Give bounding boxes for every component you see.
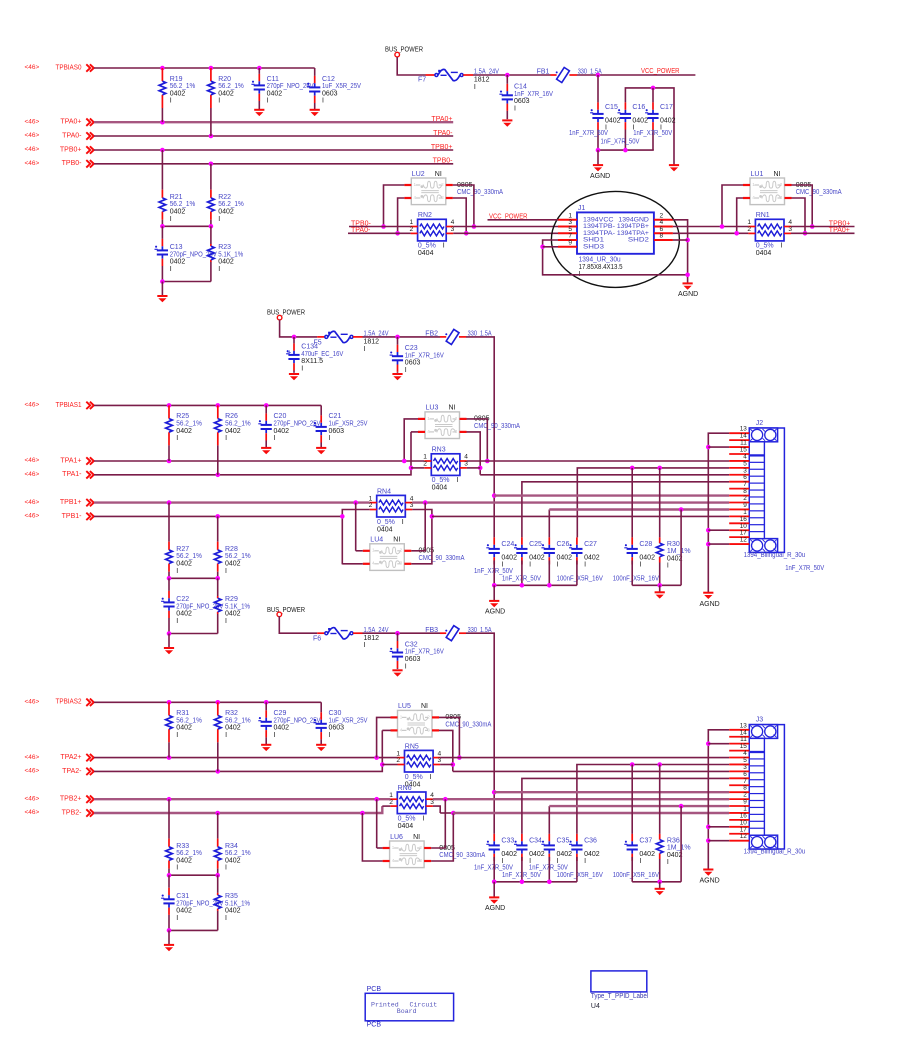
- svg-text:I: I: [170, 216, 172, 223]
- junction J3 pin11: [706, 741, 711, 746]
- junction C23: [395, 335, 400, 340]
- svg-text:0402: 0402: [176, 560, 192, 567]
- svg-text:TPA0-: TPA0-: [433, 130, 453, 137]
- svg-text:TPB2+: TPB2+: [60, 796, 82, 803]
- svg-text:R20: R20: [218, 76, 231, 83]
- svg-text:2: 2: [747, 226, 751, 233]
- svg-text:AGND: AGND: [485, 905, 505, 912]
- svg-text:9: 9: [568, 239, 572, 246]
- svg-text:2: 2: [396, 757, 400, 764]
- svg-text:100nF_X5R_16V: 100nF_X5R_16V: [613, 575, 660, 582]
- svg-text:I: I: [529, 562, 531, 569]
- capacitor C134: [293, 351, 295, 355]
- junction J2 pin11: [706, 445, 711, 450]
- junction R36 top: [657, 762, 662, 767]
- svg-text:I: I: [176, 915, 178, 922]
- junction TPA2--LU5lb: [380, 762, 385, 767]
- svg-text:0404: 0404: [377, 526, 393, 533]
- junction TPB0+-R21: [160, 148, 165, 153]
- svg-text:C30: C30: [329, 710, 342, 717]
- svg-text:I: I: [225, 435, 227, 442]
- svg-text:0402: 0402: [557, 851, 573, 858]
- svg-text:1812: 1812: [474, 77, 490, 84]
- wire pin8 line 2: [494, 791, 729, 793]
- wire TPB1- rail: [94, 515, 342, 517]
- svg-text:C26: C26: [557, 541, 570, 548]
- junction TPBIAS2-R32: [216, 700, 221, 705]
- resistor R35: [217, 875, 219, 893]
- junction TPBIAS1-C20: [264, 403, 269, 408]
- capacitor C25: [521, 545, 523, 549]
- wire C28/R30 bus: [631, 560, 633, 585]
- svg-text:SHD2: SHD2: [628, 236, 649, 243]
- resistor R19: [161, 68, 163, 81]
- wire pin8 line: [494, 494, 729, 496]
- svg-text:1: 1: [400, 714, 403, 719]
- fuse F7: [426, 74, 435, 76]
- wire RN6 pin4 line to J3: [433, 798, 729, 800]
- ground AGND caps2: [489, 896, 499, 898]
- svg-text:I: I: [514, 105, 516, 112]
- svg-text:I: I: [301, 365, 303, 372]
- svg-text:TPB0+: TPB0+: [60, 146, 82, 153]
- wire LU2 right-top: [453, 185, 474, 227]
- wire RN5 pin3 stub-link: [440, 764, 453, 766]
- svg-text:0402: 0402: [274, 725, 290, 732]
- svg-text:C25: C25: [529, 541, 542, 548]
- junction TPA2+-LU5lt: [374, 755, 379, 760]
- svg-text:1: 1: [392, 845, 395, 850]
- svg-text:0402: 0402: [529, 851, 545, 858]
- wire pin4 line to J3: [440, 757, 729, 759]
- svg-text:17.85X8.4X13.5: 17.85X8.4X13.5: [579, 264, 623, 271]
- junction TPBIAS1-R26: [216, 403, 221, 408]
- svg-text:LU3: LU3: [426, 405, 439, 412]
- svg-text:C31: C31: [176, 893, 189, 900]
- wire gnd drop: [161, 282, 163, 297]
- svg-text:LU5: LU5: [398, 703, 411, 710]
- svg-text:C17: C17: [660, 104, 673, 111]
- svg-text:2: 2: [427, 714, 430, 719]
- junction R30 top: [657, 466, 662, 471]
- pin stubs J3: [729, 722, 749, 840]
- wire pin5 line 2: [577, 765, 729, 834]
- svg-text:RN3: RN3: [432, 447, 446, 454]
- svg-text:FB3: FB3: [425, 627, 438, 634]
- svg-text:0402: 0402: [667, 852, 683, 859]
- ferrite bead FB1: [551, 74, 557, 76]
- wire C15-C17 bottom rail: [598, 149, 654, 151]
- svg-text:Type_T_PPID_Label: Type_T_PPID_Label: [591, 993, 649, 1000]
- svg-text:R21: R21: [170, 194, 183, 201]
- svg-text:J3: J3: [756, 717, 764, 724]
- svg-text:I: I: [176, 568, 178, 575]
- junction LU3lb: [409, 466, 414, 471]
- wire TPA0- rail: [94, 135, 453, 137]
- svg-text:TPBIAS2: TPBIAS2: [56, 699, 82, 706]
- svg-text:CMC_90_330mA: CMC_90_330mA: [445, 721, 491, 728]
- svg-text:4: 4: [392, 858, 395, 863]
- svg-text:C15: C15: [605, 104, 618, 111]
- svg-text:U4: U4: [591, 1003, 600, 1010]
- capacitor C23: [397, 352, 399, 356]
- svg-text:1M_1%: 1M_1%: [667, 845, 691, 852]
- svg-text:LU6: LU6: [390, 834, 403, 841]
- svg-text:<46>: <46>: [25, 146, 40, 153]
- svg-text:<46>: <46>: [25, 457, 40, 464]
- junction mid2 left: [167, 873, 172, 878]
- ground section2: [164, 944, 174, 946]
- junction TPB2+-R33: [167, 797, 172, 802]
- svg-text:+: +: [287, 349, 291, 356]
- svg-text:I: I: [176, 865, 178, 872]
- ground C29: [261, 744, 271, 746]
- svg-text:I: I: [667, 859, 669, 866]
- svg-text:56.2_1%: 56.2_1%: [170, 201, 196, 208]
- svg-text:PCB: PCB: [367, 1021, 382, 1028]
- ground section1: [164, 647, 174, 649]
- svg-text:I: I: [218, 216, 220, 223]
- svg-text:I: I: [781, 243, 783, 250]
- svg-text:0404: 0404: [756, 250, 772, 257]
- resistor R23: [210, 226, 212, 244]
- wire TPBIAS2 rail: [94, 701, 321, 703]
- svg-text:0402: 0402: [170, 90, 186, 97]
- svg-text:0402: 0402: [605, 117, 621, 124]
- resistor R27: [168, 503, 170, 542]
- choke LU4 (NI): [370, 544, 405, 571]
- wire LU1 right-bottom: [792, 198, 806, 233]
- svg-text:BUS_POWER: BUS_POWER: [267, 607, 305, 614]
- svg-text:I: I: [225, 618, 227, 625]
- junction C15 bottom: [596, 148, 601, 153]
- svg-text:R28: R28: [225, 546, 238, 553]
- junction LU5rt: [457, 755, 462, 760]
- ground AGND caps1: [489, 600, 499, 602]
- resistor R29: [217, 578, 219, 596]
- svg-text:R31: R31: [176, 710, 189, 717]
- svg-text:0402: 0402: [225, 908, 241, 915]
- junction C16 bottom: [623, 148, 628, 153]
- svg-text:0603: 0603: [329, 428, 345, 435]
- svg-text:I: I: [225, 732, 227, 739]
- capacitor C36: [576, 841, 578, 845]
- wire pin9 line: [548, 510, 550, 538]
- junction TPA0+-R19: [160, 120, 165, 125]
- capacitor C30: [320, 702, 322, 712]
- junction C15: [596, 73, 601, 78]
- wire RN4 pin2 left: [342, 510, 369, 565]
- svg-text:BUS_POWER: BUS_POWER: [385, 47, 423, 54]
- svg-text:C16: C16: [632, 104, 645, 111]
- wire LU1 left-top: [722, 185, 743, 227]
- junction TPBIAS2-R31: [167, 700, 172, 705]
- connector J3: [749, 725, 784, 849]
- pin stubs J1 right: [654, 212, 673, 240]
- svg-text:0402: 0402: [225, 857, 241, 864]
- capacitor C17: [652, 88, 654, 103]
- svg-text:TPA0+: TPA0+: [60, 119, 81, 126]
- svg-text:I: I: [274, 435, 276, 442]
- ground C21: [316, 447, 326, 449]
- svg-text:1nF_X7R_50V: 1nF_X7R_50V: [633, 130, 672, 137]
- svg-text:0402: 0402: [274, 428, 290, 435]
- resistor R28: [217, 516, 219, 541]
- junction J2 pin10: [706, 528, 711, 533]
- junction bottom2: [167, 928, 172, 933]
- junction TPBIAS1-R25: [167, 403, 172, 408]
- choke LU2 (NI): [411, 178, 446, 205]
- svg-text:2: 2: [780, 182, 783, 187]
- svg-text:56.2_1%: 56.2_1%: [225, 717, 251, 724]
- wire R21-R22 mid rail: [162, 225, 211, 227]
- wire TPB1- line to J2: [432, 515, 729, 517]
- junction SHD2: [685, 238, 690, 243]
- pin stubs J2: [729, 426, 749, 544]
- wire FB3 output to C33: [466, 633, 494, 834]
- wire TPB2- line to J3: [453, 812, 729, 814]
- wire LU5 right-bottom: [439, 730, 453, 771]
- ground C134: [289, 373, 299, 375]
- svg-text:R32: R32: [225, 710, 238, 717]
- svg-text:NI: NI: [449, 405, 456, 412]
- wire pin3 jog line to J3: [453, 770, 729, 772]
- svg-text:0404: 0404: [418, 250, 434, 257]
- wire LU6 lb feed: [362, 813, 382, 861]
- svg-text:BUS_POWER: BUS_POWER: [267, 310, 305, 317]
- svg-text:3: 3: [419, 858, 422, 863]
- svg-text:56.2_1%: 56.2_1%: [225, 850, 251, 857]
- wire TPB0- rail: [94, 163, 453, 165]
- svg-text:TPA1+: TPA1+: [60, 457, 81, 464]
- ferrite bead FB3: [440, 632, 446, 634]
- junction TPB1--R28: [215, 514, 220, 519]
- capacitor C15: [597, 75, 599, 102]
- svg-text:I: I: [176, 732, 178, 739]
- svg-text:0402: 0402: [639, 851, 655, 858]
- junction RN4-TPB1- right: [430, 514, 435, 519]
- wire RN6 pin2 left: [382, 805, 390, 807]
- svg-text:4: 4: [372, 561, 375, 566]
- svg-text:I: I: [329, 435, 331, 442]
- svg-text:I: I: [218, 266, 220, 273]
- resistor network RN2: [418, 219, 447, 241]
- wire LU4 rt drop: [411, 503, 425, 551]
- svg-text:0402: 0402: [170, 259, 186, 266]
- wire TPA1- rail: [94, 432, 411, 475]
- svg-text:R36: R36: [667, 837, 680, 844]
- svg-text:2: 2: [400, 548, 403, 553]
- junction J3 pin12: [706, 838, 711, 843]
- junction TPB1+-R27: [167, 500, 172, 505]
- junction mid2 right: [215, 873, 220, 878]
- junction LU1lt: [720, 224, 725, 229]
- junction LU2rt: [472, 224, 477, 229]
- svg-text:LU1: LU1: [751, 171, 764, 178]
- wire mid rail 1: [169, 577, 218, 579]
- svg-text:1uF_X5R_25V: 1uF_X5R_25V: [322, 83, 361, 90]
- svg-text:100nF_X5R_16V: 100nF_X5R_16V: [613, 872, 660, 879]
- svg-text:<46>: <46>: [25, 809, 40, 816]
- svg-text:270pF_NPO_25V: 270pF_NPO_25V: [274, 420, 321, 427]
- svg-text:4: 4: [400, 727, 403, 732]
- junction R36 bottom: [657, 880, 662, 885]
- svg-text:2: 2: [369, 502, 373, 509]
- svg-text:RN2: RN2: [418, 212, 432, 219]
- ground C12: [310, 109, 320, 111]
- svg-text:0402: 0402: [225, 560, 241, 567]
- svg-text:56.2_1%: 56.2_1%: [218, 83, 244, 90]
- svg-text:1: 1: [752, 182, 755, 187]
- svg-text:8X11.5: 8X11.5: [301, 358, 323, 365]
- wire pin9 line 2: [548, 806, 550, 834]
- svg-text:56.2_1%: 56.2_1%: [176, 420, 202, 427]
- wire LU1 left-bottom: [737, 198, 743, 233]
- svg-text:1nF_X7R_50V: 1nF_X7R_50V: [785, 565, 824, 572]
- junction mid rail right: [209, 224, 214, 229]
- wire RN2 to J1 pin5: [453, 232, 558, 234]
- junction LU3rt: [485, 459, 490, 464]
- svg-text:C20: C20: [274, 413, 287, 420]
- svg-text:I: I: [667, 563, 669, 570]
- resistor R20: [210, 68, 212, 81]
- wire LU3 right-bottom: [467, 432, 481, 475]
- junction TPB2- right: [451, 811, 456, 816]
- svg-text:C34: C34: [529, 837, 542, 844]
- svg-text:F7: F7: [418, 76, 426, 83]
- junction bottom1: [167, 631, 172, 636]
- svg-text:0603: 0603: [405, 656, 421, 663]
- svg-text:C22: C22: [176, 596, 189, 603]
- wire LU6 lt drop: [376, 799, 378, 848]
- svg-text:0402: 0402: [501, 851, 517, 858]
- wire pin3 jog line to J2: [480, 474, 729, 476]
- svg-text:TPB0-: TPB0-: [433, 158, 454, 165]
- junction C28 top: [630, 466, 635, 471]
- svg-text:1: 1: [414, 182, 417, 187]
- wire caps bottom bus 2: [493, 857, 495, 882]
- svg-text:1394_Bilingual_R_30u: 1394_Bilingual_R_30u: [744, 848, 806, 855]
- svg-text:I: I: [402, 519, 404, 526]
- svg-text:I: I: [422, 815, 424, 822]
- capacitor C13: [161, 226, 163, 239]
- svg-text:1394_Bilingual_R_30u: 1394_Bilingual_R_30u: [744, 552, 806, 559]
- svg-text:C21: C21: [329, 413, 342, 420]
- svg-text:TPA2-: TPA2-: [62, 768, 82, 775]
- svg-text:J2: J2: [756, 420, 764, 427]
- svg-text:C11: C11: [267, 76, 279, 83]
- junction TPBIAS2-C29: [264, 700, 269, 705]
- svg-text:AGND: AGND: [485, 609, 505, 616]
- svg-text:56.2_1%: 56.2_1%: [176, 850, 202, 857]
- wire bottom rail: [162, 281, 211, 283]
- svg-text:I: I: [584, 858, 586, 865]
- resistor R25: [168, 405, 170, 418]
- svg-text:NI: NI: [413, 834, 420, 841]
- junction TPBIAS0-C11: [257, 66, 262, 71]
- junction TPA1--R26: [216, 473, 221, 478]
- svg-text:I: I: [329, 732, 331, 739]
- wire pin4 line to J2: [467, 460, 729, 462]
- svg-text:0402: 0402: [557, 554, 573, 561]
- capacitor C27: [576, 536, 578, 538]
- svg-text:5.1K_1%: 5.1K_1%: [225, 603, 250, 610]
- wire LU2 right-bottom: [453, 198, 466, 233]
- junction LU3rb: [478, 466, 483, 471]
- svg-text:LU2: LU2: [412, 171, 425, 178]
- junction C134: [292, 335, 297, 340]
- junction TPA2+-R31: [167, 755, 172, 760]
- svg-text:0603: 0603: [322, 90, 338, 97]
- capacitor C29: [265, 718, 267, 722]
- svg-text:I: I: [405, 367, 407, 374]
- svg-text:0402: 0402: [584, 554, 600, 561]
- wire mid rail 2: [169, 874, 218, 876]
- svg-text:SHD3: SHD3: [583, 243, 604, 250]
- wire BUS drop 1: [280, 320, 318, 337]
- svg-text:1nF_X7R_50V: 1nF_X7R_50V: [569, 130, 608, 137]
- junction RN4-TPB1- left: [340, 514, 345, 519]
- svg-text:1nF_X7R_16V: 1nF_X7R_16V: [405, 649, 444, 656]
- svg-text:I: I: [218, 98, 220, 105]
- svg-text:TPB1-: TPB1-: [62, 513, 83, 520]
- resistor network RN3: [431, 454, 460, 476]
- svg-text:I: I: [170, 266, 172, 273]
- svg-text:<46>: <46>: [25, 64, 40, 71]
- svg-text:AGND: AGND: [700, 601, 720, 608]
- svg-text:<46>: <46>: [25, 499, 40, 506]
- wire TPA2- feed to RN5 pin2: [382, 764, 397, 766]
- resistor R30: [659, 468, 661, 538]
- svg-text:R26: R26: [225, 413, 238, 420]
- wire TPA0+ rail: [94, 121, 453, 123]
- svg-text:0402: 0402: [584, 851, 600, 858]
- junction LU3lt: [402, 459, 407, 464]
- svg-text:I: I: [225, 865, 227, 872]
- junction TPB1+-LU4lt: [353, 500, 358, 505]
- svg-text:FB1: FB1: [537, 69, 550, 76]
- capacitor C14: [506, 91, 508, 95]
- wire LU4 lt link: [356, 550, 363, 552]
- wire TPB0- segment: [349, 226, 411, 228]
- svg-text:R35: R35: [225, 893, 238, 900]
- wire LU6 rt drop: [431, 799, 445, 848]
- junction TPBIAS0-R20: [209, 66, 214, 71]
- svg-text:<46>: <46>: [25, 795, 40, 802]
- junction pin9-agnd leg: [679, 507, 684, 512]
- junction LU2lt: [381, 224, 386, 229]
- ground AGND J3: [703, 869, 713, 871]
- ground right leg: [669, 164, 679, 166]
- junction TPB2--LU6lb: [360, 811, 365, 816]
- capacitor C24: [493, 545, 495, 549]
- wire VCC_POWER to J1 pin1: [488, 219, 559, 221]
- svg-text:1812: 1812: [364, 339, 380, 346]
- svg-text:R19: R19: [170, 76, 183, 83]
- svg-text:0_5%: 0_5%: [398, 815, 416, 822]
- svg-text:TPA1-: TPA1-: [62, 471, 82, 478]
- svg-text:I: I: [267, 98, 269, 105]
- wire LU5 right-top: [439, 717, 459, 757]
- block PCB printed circuit board: [365, 986, 453, 1028]
- junction C14: [505, 73, 510, 78]
- svg-text:CMC_90_330mA: CMC_90_330mA: [796, 189, 842, 196]
- block U4 Type_T_PPID_Label: [591, 971, 649, 1010]
- svg-text:56.2_1%: 56.2_1%: [176, 553, 202, 560]
- wire TPA1+ rail: [94, 460, 424, 462]
- svg-text:0402: 0402: [176, 857, 192, 864]
- wire LU4 lt drop: [355, 503, 357, 551]
